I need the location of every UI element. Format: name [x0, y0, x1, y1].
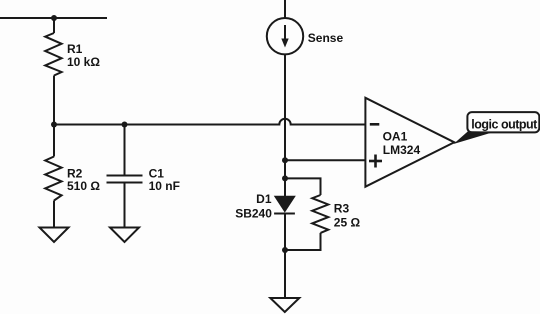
wire plus-input junction to R3 junction: [284, 160, 286, 178]
diode D1: [274, 196, 295, 213]
current source Sense: [267, 18, 303, 54]
node junction D1 / R3 bottom: [282, 247, 288, 253]
wire R2 bottom lead: [53, 201, 55, 228]
callout logic output: [454, 112, 540, 144]
svg-text:logic output: logic output: [471, 118, 538, 132]
wire C1 bottom lead: [124, 183, 126, 228]
node junction R1 / R2 / middle rail: [51, 122, 57, 128]
ground below R2: [40, 228, 69, 243]
ground bottom: [270, 298, 299, 312]
svg-text:10 kΩ: 10 kΩ: [67, 55, 100, 69]
resistor R1: [45, 33, 61, 76]
svg-text:10 nF: 10 nF: [149, 179, 180, 193]
wire R2 top lead: [53, 125, 55, 157]
svg-text:SB240: SB240: [235, 206, 272, 220]
svg-text:D1: D1: [256, 192, 272, 206]
wire D1 cathode to bottom junction: [284, 214, 286, 251]
wire to op-amp plus input: [285, 159, 365, 161]
op-amp OA1 LM324: [365, 98, 454, 187]
wire C1 top lead: [124, 125, 126, 176]
svg-text:R1: R1: [67, 42, 83, 56]
wire sense source to plus-input junction: [284, 54, 286, 160]
wire R1 bottom lead: [53, 76, 55, 125]
wire D1 anode lead: [284, 178, 286, 196]
resistor R2: [45, 157, 61, 201]
wire R3 bottom lead: [285, 233, 321, 250]
node junction R3 top: [282, 175, 288, 181]
resistor R3: [312, 195, 328, 233]
capacitor C1: [107, 176, 143, 183]
svg-text:510 Ω: 510 Ω: [67, 179, 100, 193]
svg-text:R3: R3: [334, 201, 350, 215]
svg-text:Sense: Sense: [308, 31, 344, 45]
wire sense source top lead: [284, 0, 286, 18]
wire bottom junction to ground: [284, 250, 286, 298]
svg-text:LM324: LM324: [383, 143, 421, 157]
node junction plus input: [282, 157, 288, 163]
svg-text:OA1: OA1: [383, 130, 408, 144]
wire R3 top lead: [285, 178, 321, 195]
node junction top rail / R1: [51, 15, 57, 21]
ground below C1: [110, 228, 139, 243]
node junction C1 on middle rail: [122, 122, 128, 128]
wire top supply rail: [0, 17, 107, 19]
wire R1 top lead: [53, 18, 55, 33]
wire middle rail to op-amp minus input with hop over sense wire: [54, 119, 365, 125]
svg-text:25 Ω: 25 Ω: [334, 216, 361, 230]
